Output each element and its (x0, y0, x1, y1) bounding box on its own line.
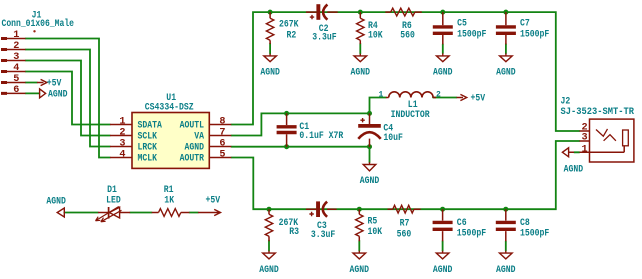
svg-text:AGND: AGND (564, 165, 584, 176)
svg-text:AGND: AGND (48, 89, 68, 100)
svg-text:AOUTR: AOUTR (180, 154, 205, 165)
svg-text:SCLK: SCLK (138, 132, 158, 143)
svg-text:MCLK: MCLK (138, 154, 158, 165)
svg-text:AGND: AGND (259, 265, 279, 276)
svg-text:267K: 267K (279, 19, 299, 30)
svg-text:5: 5 (13, 74, 19, 85)
svg-text:AGND: AGND (260, 68, 280, 79)
svg-text:INDUCTOR: INDUCTOR (391, 110, 431, 121)
svg-text:SJ-3523-SMT-TR: SJ-3523-SMT-TR (561, 107, 635, 118)
svg-text:R5: R5 (368, 217, 378, 228)
svg-text:AOUTL: AOUTL (180, 121, 204, 132)
svg-text:+5V: +5V (206, 196, 221, 207)
svg-text:D1: D1 (107, 185, 117, 196)
svg-text:AGND: AGND (351, 68, 371, 79)
svg-text:7: 7 (219, 127, 225, 138)
svg-text:R7: R7 (400, 219, 410, 230)
svg-text:C5: C5 (457, 19, 467, 30)
svg-text:AGND: AGND (496, 265, 516, 276)
svg-text:1: 1 (13, 30, 19, 41)
svg-text:CS4334-DSZ: CS4334-DSZ (145, 103, 194, 114)
svg-text:R3: R3 (289, 227, 299, 238)
svg-text:10K: 10K (368, 227, 383, 238)
svg-text:10uF: 10uF (383, 133, 403, 144)
svg-text:1: 1 (582, 144, 588, 155)
svg-text:AGND: AGND (433, 68, 453, 79)
svg-text:10K: 10K (368, 31, 383, 42)
svg-text:R1: R1 (164, 185, 174, 196)
svg-text:Conn_01x06_Male: Conn_01x06_Male (2, 18, 75, 30)
svg-text:3.3uF: 3.3uF (311, 230, 335, 241)
svg-text:SDATA: SDATA (138, 121, 163, 132)
svg-text:3: 3 (582, 133, 588, 144)
svg-text:2: 2 (436, 90, 441, 99)
svg-text:C7: C7 (520, 19, 530, 30)
svg-text:6: 6 (219, 138, 225, 149)
svg-text:AGND: AGND (350, 265, 370, 276)
svg-text:560: 560 (400, 31, 415, 42)
svg-text:LED: LED (106, 196, 121, 207)
svg-text:560: 560 (397, 229, 412, 240)
svg-text:AGND: AGND (360, 176, 380, 187)
svg-text:3: 3 (119, 138, 125, 149)
svg-text:2: 2 (13, 41, 19, 52)
svg-text:4: 4 (119, 149, 125, 160)
svg-text:AGND: AGND (185, 143, 205, 154)
svg-text:R2: R2 (287, 31, 297, 42)
svg-text:J2: J2 (561, 97, 571, 108)
svg-text:4: 4 (13, 63, 19, 74)
svg-text:+5V: +5V (47, 79, 62, 90)
svg-text:1500pF: 1500pF (457, 228, 486, 239)
svg-text:+5V: +5V (471, 94, 486, 105)
svg-text:6: 6 (13, 85, 19, 96)
svg-text:8: 8 (219, 116, 225, 127)
svg-text:2: 2 (119, 127, 125, 138)
svg-text:C6: C6 (457, 218, 467, 229)
svg-text:5: 5 (219, 149, 225, 160)
svg-text:0.1uF X7R: 0.1uF X7R (299, 131, 344, 142)
svg-text:1500pF: 1500pF (457, 29, 486, 40)
svg-text:AGND: AGND (433, 265, 453, 276)
svg-text:3.3uF: 3.3uF (312, 33, 336, 44)
svg-text:1500pF: 1500pF (520, 29, 549, 40)
svg-text:C8: C8 (520, 218, 530, 229)
svg-text:AGND: AGND (496, 68, 516, 79)
svg-text:AGND: AGND (46, 197, 66, 208)
svg-text:1500pF: 1500pF (520, 228, 549, 239)
svg-text:3: 3 (13, 52, 19, 63)
svg-text:1: 1 (119, 116, 125, 127)
svg-text:LRCK: LRCK (138, 143, 158, 154)
svg-text:1: 1 (379, 90, 384, 99)
svg-text:1K: 1K (164, 196, 175, 207)
svg-text:VA: VA (194, 132, 205, 143)
